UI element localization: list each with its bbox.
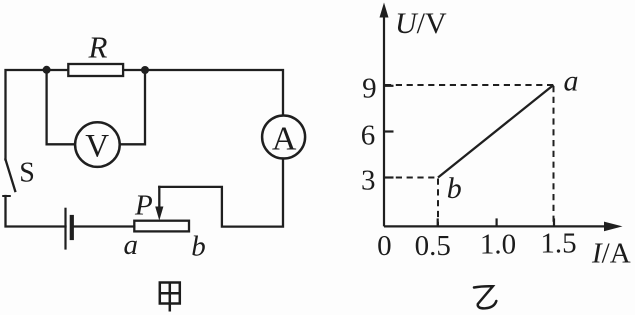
node A junction dot left [43, 66, 51, 74]
x tick 1.0 [496, 218, 498, 226]
svg-text:9: 9 [362, 73, 377, 105]
svg-text:1.5: 1.5 [540, 228, 576, 260]
dashed guide from point a down to 1.5 [553, 86, 555, 226]
y-axis arrowhead [380, 3, 389, 18]
slider arrowhead P [155, 207, 163, 221]
dashed guide from 3 to point b [385, 177, 438, 179]
wire: slider arrow stem [158, 187, 160, 210]
svg-text:I/A: I/A [591, 238, 631, 270]
wire: ammeter bottom to rheostat slider [159, 159, 283, 227]
svg-text:0: 0 [377, 230, 392, 262]
caption 乙 (drawn glyph) [474, 286, 496, 308]
wire: voltmeter branch left [47, 70, 76, 144]
x tick 0.5 [437, 218, 439, 226]
wire: top from resistor right to ammeter corner [123, 70, 283, 116]
battery BT short thick plate [70, 217, 74, 238]
dashed guide from point b down to 0.5 [437, 179, 439, 227]
ammeter U2 circle [262, 116, 305, 159]
battery BT long thin plate [64, 209, 66, 249]
voltmeter U1 circle [75, 122, 120, 167]
svg-text:R: R [88, 30, 108, 65]
wire: voltmeter branch right [120, 70, 145, 144]
svg-text:3: 3 [361, 165, 376, 197]
svg-text:b: b [191, 231, 206, 263]
x-axis arrowhead [604, 222, 623, 232]
wire: battery positive to rheostat terminal a [74, 225, 135, 227]
svg-text:a: a [564, 65, 579, 98]
y tick 9 [384, 85, 394, 87]
svg-text:U/V: U/V [395, 7, 447, 40]
x tick 1.5 [553, 218, 555, 226]
switch S lower contact tick [3, 195, 10, 197]
line segment b to a [438, 85, 554, 178]
x-axis [384, 225, 608, 227]
svg-text:S: S [19, 158, 35, 189]
y tick 3 [384, 176, 394, 178]
rheostat RP body [134, 221, 189, 232]
graph axes: y-axis [384, 14, 608, 226]
resistor R [68, 64, 123, 76]
svg-text:A: A [272, 121, 297, 158]
switch S blade [6, 160, 16, 192]
svg-text:a: a [123, 229, 138, 261]
wire: bottom left from battery to switch [6, 196, 66, 227]
svg-text:1.0: 1.0 [480, 229, 516, 261]
svg-text:b: b [447, 172, 462, 205]
svg-text:0.5: 0.5 [415, 230, 451, 262]
y tick 6 [384, 130, 394, 132]
svg-text:V: V [85, 128, 109, 164]
svg-text:P: P [134, 190, 153, 222]
caption 甲 (drawn glyph) [160, 283, 180, 312]
svg-text:6: 6 [361, 120, 376, 152]
node B junction dot right [141, 66, 149, 74]
wire: left vertical from top wire down to switch [6, 70, 69, 160]
dashed guide from 9 to point a [385, 85, 554, 226]
